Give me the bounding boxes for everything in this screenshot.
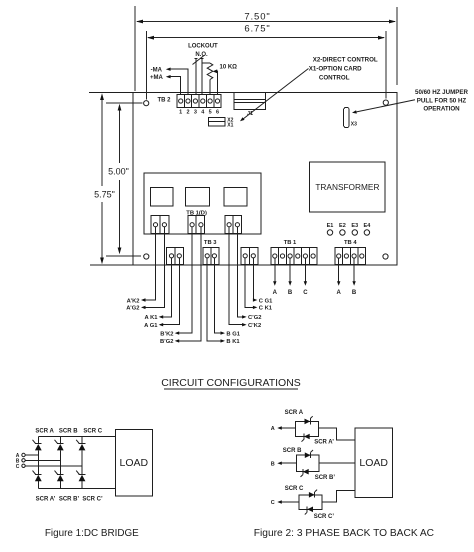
svg-text:LOAD: LOAD <box>359 457 388 469</box>
svg-text:7.50": 7.50" <box>244 12 270 23</box>
svg-text:C G1: C G1 <box>259 298 273 304</box>
node C input (fig1) <box>16 464 25 470</box>
switch lockout contact <box>193 56 205 65</box>
dimension 6.75" <box>146 24 385 100</box>
label TB 2 <box>157 98 171 104</box>
svg-text:C K1: C K1 <box>259 306 273 312</box>
caption figure 1 <box>45 528 139 539</box>
wire TB1 phase C <box>303 258 308 296</box>
terminal pair P2 <box>188 216 205 234</box>
svg-text:LOCKOUT: LOCKOUT <box>188 43 218 49</box>
wire C'G2 <box>237 227 261 321</box>
section title CIRCUIT CONFIGURATIONS <box>161 377 301 389</box>
wire TB4 phase B <box>352 258 357 296</box>
svg-text:B’G2: B’G2 <box>160 339 174 345</box>
svg-text:A: A <box>337 290 342 296</box>
svg-text:X1: X1 <box>227 123 233 129</box>
SCR B top device <box>55 437 64 475</box>
svg-text:SCR B’: SCR B’ <box>59 496 80 502</box>
terminal block TB3 <box>203 240 219 264</box>
label SCR C' <box>82 496 103 502</box>
svg-text:SCR A: SCR A <box>35 429 54 435</box>
label SCR A <box>35 429 54 435</box>
terminal block TB1 <box>271 240 317 264</box>
svg-text:B: B <box>288 290 293 296</box>
svg-text:1: 1 <box>179 110 182 116</box>
node C input (fig2) <box>271 500 299 506</box>
pin numbers 1-6 <box>179 110 219 116</box>
value label 10 KOhm <box>220 64 238 70</box>
mounting hole top-left <box>144 101 149 106</box>
SCR C' bottom device <box>76 471 85 489</box>
svg-text:SCR A’: SCR A’ <box>36 496 56 502</box>
wire TB1 phase B <box>288 258 293 296</box>
terminal block TB4 <box>335 240 366 264</box>
svg-text:C: C <box>303 290 308 296</box>
svg-text:SCR B: SCR B <box>283 448 302 454</box>
label SCR C (fig2) <box>285 486 304 492</box>
load resistor fig2 <box>355 428 392 497</box>
test points E1 E2 E3 E4 <box>327 223 372 235</box>
svg-text:+MA: +MA <box>150 75 164 81</box>
svg-text:A: A <box>271 426 275 432</box>
wire +MA terminal 1 <box>150 75 181 95</box>
svg-text:SCR B’: SCR B’ <box>315 475 336 481</box>
svg-text:B: B <box>352 290 357 296</box>
transformer T1 <box>310 162 385 212</box>
heatsink module box <box>144 173 261 234</box>
SCR pair C loop <box>299 490 322 515</box>
svg-text:10 KΩ: 10 KΩ <box>220 64 238 70</box>
wire pair A to load <box>318 428 355 440</box>
wire terminal 3 <box>195 59 197 95</box>
terminal pair C (bottom row) <box>241 247 258 264</box>
wire A'G2 <box>126 227 164 312</box>
svg-text:A G1: A G1 <box>144 323 158 329</box>
svg-text:SCR C’: SCR C’ <box>314 514 335 520</box>
svg-text:B G1: B G1 <box>226 331 240 337</box>
svg-text:E1: E1 <box>327 223 334 229</box>
board outline <box>89 93 397 266</box>
label SCR B' <box>59 496 80 502</box>
svg-text:X3: X3 <box>351 122 357 128</box>
wire A G1 <box>144 258 179 329</box>
svg-text:6.75": 6.75" <box>244 24 270 35</box>
mounting hole bottom-right <box>383 254 388 259</box>
svg-text:TB 2: TB 2 <box>157 98 171 104</box>
terminal block TB2 <box>177 95 221 108</box>
caption figure 2 <box>254 528 434 539</box>
svg-text:E3: E3 <box>351 223 358 229</box>
svg-text:X1-OPTION CARD: X1-OPTION CARD <box>309 65 362 72</box>
wire terminal 4 <box>201 59 203 95</box>
terminal pair A (bottom row) <box>167 247 184 264</box>
SCR pair B loop <box>297 450 319 477</box>
node A input (fig1) <box>16 453 25 459</box>
svg-text:LOAD: LOAD <box>120 457 149 469</box>
dimension 5.75" <box>94 93 115 264</box>
svg-text:SCR A: SCR A <box>285 410 304 416</box>
label SCR A (fig2) <box>285 410 304 416</box>
SCR A' bottom device <box>33 471 42 489</box>
wire B'K2 <box>160 227 192 337</box>
wire A K1 <box>145 258 172 321</box>
svg-text:Figure 1:DC BRIDGE: Figure 1:DC BRIDGE <box>45 528 139 539</box>
wire C G1 <box>253 258 273 304</box>
wire B G1 <box>214 258 240 337</box>
connector J1 <box>234 93 266 110</box>
svg-text:SCR B: SCR B <box>59 429 78 435</box>
pot wiper wire terminal 6 <box>213 69 218 94</box>
svg-text:50/60 HZ JUMPER: 50/60 HZ JUMPER <box>415 89 468 96</box>
svg-text:E2: E2 <box>339 223 346 229</box>
svg-text:TB 3: TB 3 <box>204 240 217 246</box>
wire A'K2 <box>127 227 156 304</box>
wire phase B (fig1) <box>25 459 60 461</box>
load resistor fig1 <box>116 429 153 496</box>
svg-text:TB 4: TB 4 <box>344 240 357 246</box>
svg-text:CONTROL: CONTROL <box>319 75 350 82</box>
label SCR A' <box>36 496 56 502</box>
svg-text:2: 2 <box>186 110 189 116</box>
svg-text:PULL FOR 50 HZ: PULL FOR 50 HZ <box>417 97 467 104</box>
node A input (fig2) <box>271 426 296 432</box>
SCR pair A loop <box>296 416 319 442</box>
wire B'G2 <box>160 227 201 345</box>
mounting hole top-right <box>383 100 388 105</box>
svg-text:X2-DIRECT CONTROL: X2-DIRECT CONTROL <box>313 56 378 63</box>
label SCR B <box>59 429 78 435</box>
svg-text:SCR C: SCR C <box>83 429 102 435</box>
wire C'K2 <box>229 227 261 329</box>
label SCR B' (fig2) <box>315 475 336 481</box>
svg-text:B: B <box>271 461 275 467</box>
dimension 5.00" <box>106 103 143 256</box>
svg-text:CIRCUIT CONFIGURATIONS: CIRCUIT CONFIGURATIONS <box>161 377 301 389</box>
svg-text:SCR C’: SCR C’ <box>82 496 103 502</box>
wire TB4 phase A <box>337 258 342 296</box>
svg-text:6: 6 <box>216 110 219 116</box>
label SCR C <box>83 429 102 435</box>
label LOCKOUT N.O. <box>188 43 218 58</box>
wire TB1 phase A <box>273 258 278 296</box>
wire B K1 <box>207 258 240 345</box>
wire positive bus (fig1) <box>38 436 115 438</box>
wire negative bus (fig1) <box>38 487 115 489</box>
wire -MA terminal 2 <box>151 67 188 94</box>
wire pair B to load <box>319 462 355 464</box>
svg-text:5.00": 5.00" <box>108 167 129 177</box>
terminal pair P1 <box>151 216 169 234</box>
label J1 <box>247 111 253 117</box>
svg-text:3: 3 <box>194 110 197 116</box>
svg-text:A: A <box>273 290 278 296</box>
svg-text:A K1: A K1 <box>145 315 159 321</box>
svg-text:OPERATION: OPERATION <box>423 106 460 113</box>
label SCR A' (fig2) <box>314 439 334 445</box>
wire phase A (fig1) <box>25 454 38 456</box>
SCR A top device <box>33 437 42 475</box>
leader 50/60 Hz note <box>352 89 469 114</box>
dimension 7.50" <box>135 6 397 91</box>
svg-text:SCR A’: SCR A’ <box>314 439 334 445</box>
node B input (fig2) <box>271 461 297 467</box>
svg-text:SCR C: SCR C <box>285 486 304 492</box>
label TB 1(D) <box>186 210 207 216</box>
svg-text:TB 1: TB 1 <box>284 240 297 246</box>
svg-text:C’G2: C’G2 <box>248 315 262 321</box>
svg-text:TRANSFORMER: TRANSFORMER <box>315 182 379 192</box>
wire pair C to load <box>322 491 355 502</box>
jumper X2/X1 <box>209 117 234 128</box>
svg-text:C: C <box>16 464 20 470</box>
mounting hole bottom-left <box>144 254 149 259</box>
svg-text:C: C <box>271 500 275 506</box>
wire C K1 <box>245 258 273 312</box>
svg-text:A’K2: A’K2 <box>127 298 140 304</box>
svg-text:Figure 2: 3 PHASE BACK TO BACK: Figure 2: 3 PHASE BACK TO BACK AC <box>254 528 434 539</box>
leader X2/X1 control note <box>240 56 378 121</box>
svg-text:E4: E4 <box>364 223 372 229</box>
svg-text:C’K2: C’K2 <box>248 323 261 329</box>
node B input (fig1) <box>16 458 25 464</box>
svg-text:A’G2: A’G2 <box>126 306 139 312</box>
svg-text:B’K2: B’K2 <box>160 331 173 337</box>
label SCR C' (fig2) <box>314 514 335 520</box>
wire phase C (fig1) <box>25 465 82 467</box>
svg-text:B K1: B K1 <box>226 339 240 345</box>
svg-text:5: 5 <box>209 110 212 116</box>
svg-text:-MA: -MA <box>151 67 163 73</box>
SCR C top device <box>76 437 85 475</box>
label SCR B (fig2) <box>283 448 302 454</box>
terminal pair P3 <box>225 216 242 234</box>
svg-text:5.75": 5.75" <box>94 190 115 200</box>
SCR B' bottom device <box>55 471 64 489</box>
potentiometer 10 K <box>202 63 213 94</box>
jumper X3 <box>344 108 358 128</box>
